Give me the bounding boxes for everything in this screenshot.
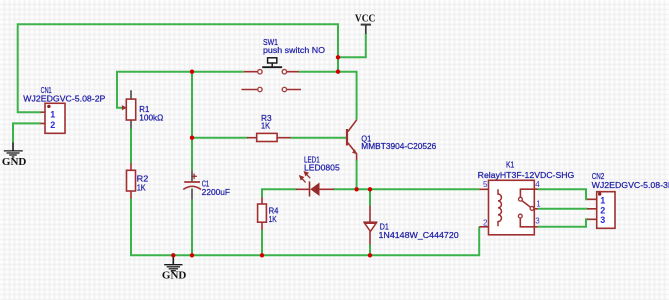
svg-text:2: 2 (483, 219, 488, 228)
svg-text:CN2: CN2 (592, 172, 605, 181)
svg-text:K1: K1 (506, 161, 515, 170)
svg-text:100kΩ: 100kΩ (139, 114, 163, 123)
svg-text:2: 2 (600, 205, 605, 215)
svg-text:R2: R2 (137, 175, 149, 184)
svg-text:3: 3 (535, 216, 540, 225)
svg-text:GND: GND (2, 156, 27, 168)
svg-text:MMBT3904-C20526: MMBT3904-C20526 (361, 142, 437, 151)
svg-text:LED0805: LED0805 (304, 164, 340, 173)
svg-text:1N4148W_C444720: 1N4148W_C444720 (379, 231, 460, 240)
svg-text:1: 1 (536, 200, 541, 209)
svg-text:1K: 1K (261, 122, 271, 131)
svg-text:2: 2 (50, 120, 55, 130)
svg-text:WJ2EDGVC-5.08-3P: WJ2EDGVC-5.08-3P (592, 181, 669, 190)
svg-text:WJ2EDGVC-5.08-2P: WJ2EDGVC-5.08-2P (23, 95, 105, 104)
svg-text:1K: 1K (137, 184, 147, 193)
svg-text:push switch NO: push switch NO (263, 46, 325, 55)
svg-text:1: 1 (600, 195, 605, 205)
svg-text:GND: GND (162, 269, 187, 281)
svg-text:RelayHT3F-12VDC-SHG: RelayHT3F-12VDC-SHG (478, 171, 575, 180)
svg-text:VCC: VCC (355, 12, 375, 24)
svg-text:3: 3 (600, 215, 605, 225)
svg-text:1K: 1K (269, 215, 278, 224)
svg-text:4: 4 (535, 180, 540, 189)
svg-text:5: 5 (483, 180, 488, 189)
svg-text:1: 1 (50, 110, 55, 120)
svg-text:2200uF: 2200uF (202, 188, 230, 197)
svg-text:R1: R1 (139, 105, 150, 114)
